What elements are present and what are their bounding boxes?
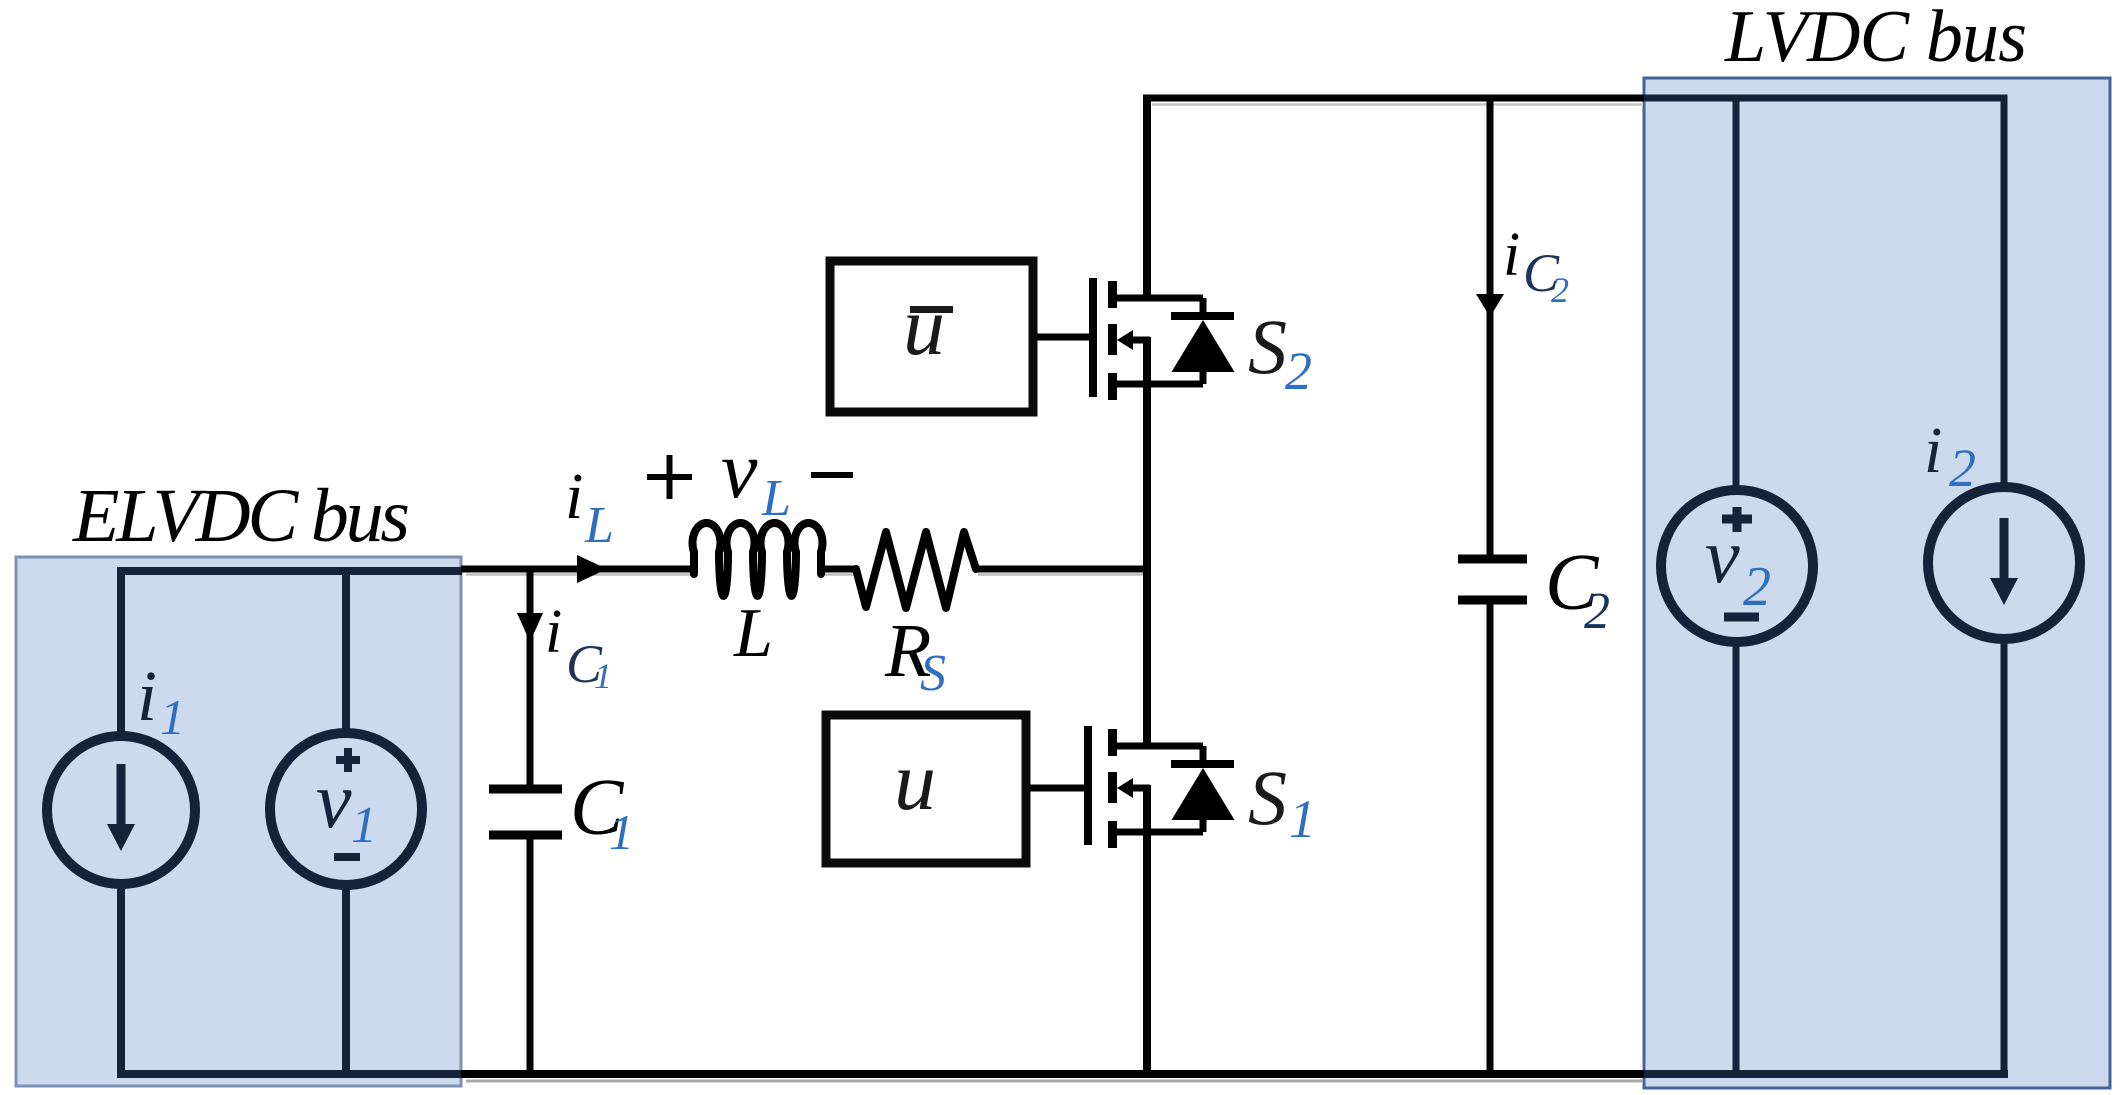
transistor S1 [1088,726,1203,848]
svg-text:2: 2 [1584,583,1610,640]
wire: C1 branch [527,569,534,1074]
svg-text:L: L [733,595,773,672]
voltage source v1 [270,733,422,885]
capacitor C1 label [570,764,634,860]
label i1 [137,656,185,745]
svg-text:i: i [565,460,583,533]
plus sign of v_L [647,455,692,499]
wire: gate wire S2 [1037,334,1091,341]
wire: v1 branch [342,567,350,1078]
svg-text:L: L [761,470,791,527]
arrow i_C2 [1476,294,1504,317]
transistor S2 [1093,278,1203,400]
svg-text:2: 2 [1743,556,1771,618]
wire: i2 branch [2001,95,2008,1079]
wire: top rail navy part inside LVDC [1644,95,2008,102]
resistor label R_S [884,609,946,702]
wire: ELVDC top rail (navy) [119,567,462,575]
body diode of S1 [1171,764,1235,820]
svg-text:ELVDC bus: ELVDC bus [72,474,410,558]
label u-bar [903,280,953,373]
svg-text:i: i [1924,414,1942,487]
label i_C2 [1503,221,1569,310]
svg-text:L: L [584,497,614,554]
inductor L [693,523,823,596]
wire: bottom rail ELVDC navy [119,1070,462,1078]
wire: resistor to bus [975,566,1150,573]
label S2 [1248,303,1312,401]
svg-text:v: v [721,424,758,515]
svg-text:2: 2 [1285,341,1312,401]
svg-text:i: i [1503,221,1520,289]
label i_C1 [545,598,612,696]
svg-text:S: S [1248,303,1287,390]
svg-text:1: 1 [160,689,185,745]
label v1 [316,757,377,854]
svg-text:u: u [894,735,936,828]
label S1 [1248,754,1316,849]
label i2 [1924,414,1976,498]
label v_L [721,424,791,527]
wire: bottom rail black [461,1070,1646,1078]
wire: main bus [1143,95,1151,1079]
current source i2 [1928,487,2080,639]
svg-text:1: 1 [1289,789,1316,849]
svg-text:S: S [1248,754,1287,841]
wire: bottom rail LVDC navy [1644,1070,2008,1078]
LVDC bus shaded region [1644,78,2110,1088]
wire shadow under bottom rail [466,1080,1643,1083]
wire: gate wire S1 [1030,785,1086,792]
svg-text:i: i [545,598,562,666]
ELVDC bus shaded region [16,557,461,1086]
svg-text:v: v [316,757,352,845]
wire shadow under mid wire [466,573,1144,576]
arrow i_C1 [517,613,543,642]
svg-text:1: 1 [609,804,634,860]
svg-text:1: 1 [351,797,377,854]
svg-text:v: v [1705,512,1740,599]
body diode of S2 [1171,316,1235,372]
capacitor C2 label [1545,539,1610,640]
wire: between inductor and resistor [820,566,857,573]
ELVDC bus title [72,474,410,558]
LVDC bus title [1724,0,2027,78]
current source i1 [47,736,195,884]
svg-text:i: i [137,656,157,736]
wire: i1 branch [117,567,125,1078]
label v2 [1705,512,1771,618]
wire shadow under top rail [1152,103,1643,106]
resistor R_S [856,532,976,608]
inductor label L [733,595,773,672]
svg-text:u: u [903,280,945,373]
arrow i_L [577,555,607,583]
voltage source v2 [1661,490,1813,642]
capacitor C2 [1458,559,1527,600]
wire: v2 branch [1733,95,1740,1079]
capacitor C1 [489,789,562,835]
svg-text:2: 2 [1949,438,1976,498]
label u [894,735,936,828]
wire: C2 branch [1487,95,1494,1075]
minus sign of v_L [811,472,853,478]
gate box u [826,715,1026,863]
label i_L with arrow [565,460,614,554]
svg-text:1: 1 [594,656,612,696]
svg-text:S: S [920,645,946,702]
wire: top rail black part [1144,95,1647,102]
wire: mid horizontal left segment [461,566,695,573]
gate box u-bar [830,261,1033,412]
svg-text:2: 2 [1551,270,1569,310]
svg-text:LVDC bus: LVDC bus [1724,0,2027,78]
